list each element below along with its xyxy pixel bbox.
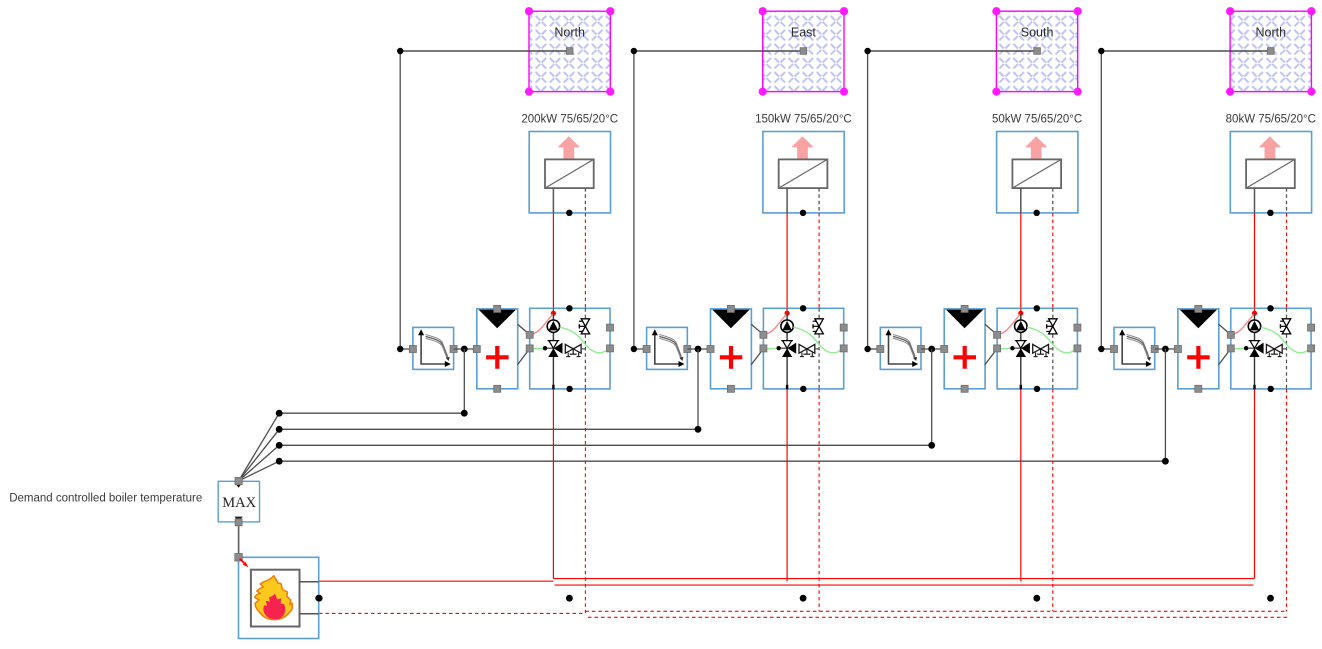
summing block (triangle + plus) unit 3 [941,305,985,392]
node outside-temp corner unit 1 [397,48,403,54]
node curve-input unit 4 [1098,346,1104,352]
node pump-group top unit 1 [566,305,572,311]
wire summing to pump-group upper unit 1 [518,324,530,335]
svg-text:200kW 75/65/20°C: 200kW 75/65/20°C [521,114,618,126]
pipe supply riser radiator unit 1 [552,213,554,309]
node pump-group bottom unit 2 [800,386,806,392]
wire heating-curve output unit 1 [454,348,477,350]
node setpoint junction unit 2 [695,346,702,353]
zone box South unit 3 [992,7,1081,96]
radiator box unit 1 [529,132,610,213]
pipe return drop unit 1 [584,389,586,613]
node bus right end unit 1 [461,410,468,417]
node curve-input unit 3 [864,346,870,352]
node bus left end unit 4 [276,458,283,465]
wire MAX to boiler control [235,519,242,558]
heating curve block unit 2 [643,327,691,369]
svg-text:50kW 75/65/20°C: 50kW 75/65/20°C [992,114,1082,126]
node bus right end unit 4 [1162,458,1169,465]
node curve-input unit 2 [631,346,637,352]
pipe return header main segment [585,610,1286,612]
heating curve block unit 4 [1111,327,1159,369]
pump and valve group box unit 3 [994,308,1081,389]
boiler outer box [239,557,319,638]
pipe return riser radiator unit 3 [1052,213,1054,309]
wire setpoint bus to MAX unit 1 [239,413,465,481]
wire summing to pump-group lower unit 1 [517,349,529,365]
wire outside temperature down-feed unit 1 [400,51,413,349]
zone box East unit 2 [759,7,849,96]
pipe supply drop unit 1 [552,389,554,579]
wire summing to pump-group upper unit 4 [1219,324,1231,335]
boiler burner box [251,570,300,627]
wire outside temperature down-feed unit 3 [868,51,881,349]
wire outside temperature down-feed unit 2 [634,51,647,349]
pump and valve group box unit 2 [760,308,847,389]
summing block (triangle + plus) unit 1 [473,305,517,392]
control arrow into boiler [240,559,249,568]
boiler return stub [300,613,319,615]
heating curve block unit 1 [409,327,457,369]
pipe return riser radiator unit 1 [584,213,586,309]
node pump-group top unit 2 [800,305,806,311]
wire outside temperature down-feed unit 4 [1101,51,1114,349]
node pipe waypoint 2 [566,595,573,602]
node pump-group bottom unit 1 [566,386,572,392]
svg-text:South: South [1021,26,1054,40]
wire summing to pump-group lower unit 3 [985,349,997,365]
node setpoint junction unit 3 [928,346,935,353]
node bus right end unit 3 [928,442,935,449]
node pump-group bottom unit 4 [1268,386,1274,392]
MAX block [218,481,259,522]
wire heating-curve output unit 2 [687,348,710,350]
svg-text:East: East [791,26,817,40]
svg-text:Demand controlled boiler tempe: Demand controlled boiler temperature [9,492,202,504]
node bus left end unit 2 [276,426,283,433]
node setpoint junction unit 4 [1162,346,1169,353]
node pipe waypoint 3 [800,595,807,602]
wire setpoint bus to MAX unit 4 [239,461,1166,481]
wire summing to pump-group lower unit 2 [751,349,763,365]
pipe return header offset segment [588,616,1288,618]
node outside-temp corner unit 4 [1098,48,1104,54]
wire setpoint down-feed unit 4 [1164,349,1166,461]
radiator box unit 4 [1230,132,1311,213]
wire outside temperature to zone North unit 4 [1101,48,1274,55]
pipe supply header boiler segment [319,580,553,582]
summing block (triangle + plus) unit 4 [1174,305,1218,392]
pipe return riser radiator unit 4 [1286,213,1288,309]
node outside-temp corner unit 3 [864,48,870,54]
pump and valve group box unit 4 [1227,308,1314,389]
wire heating-curve output unit 4 [1155,348,1178,350]
zone box North unit 4 [1226,7,1316,96]
svg-text:80kW 75/65/20°C: 80kW 75/65/20°C [1226,114,1316,126]
wire outside temperature to zone North unit 1 [400,48,573,55]
wire setpoint bus to MAX unit 3 [239,445,932,481]
pipe supply riser radiator unit 3 [1020,213,1022,309]
pipe supply header offset segment [555,584,1254,586]
node boiler control port [235,554,243,562]
pipe supply riser radiator unit 4 [1254,213,1256,309]
wire setpoint down-feed unit 3 [931,349,933,445]
pipe supply drop unit 4 [1254,389,1256,578]
node pump-group top unit 3 [1034,305,1040,311]
node pump-group top unit 4 [1267,305,1273,311]
wire setpoint bus to MAX unit 2 [239,429,698,481]
node bus left end unit 1 [276,410,283,417]
node radiator-bottom unit 2 [800,210,806,216]
wire summing to pump-group lower unit 4 [1219,349,1231,365]
flame icon [255,576,293,620]
node radiator-bottom unit 4 [1267,210,1273,216]
wire setpoint down-feed unit 2 [697,349,699,429]
zone box North unit 1 [525,7,615,96]
pipe return drop unit 3 [1052,389,1054,611]
node pipe waypoint 5 [1267,595,1274,602]
node boiler right [315,595,322,602]
svg-text:150kW 75/65/20°C: 150kW 75/65/20°C [755,114,852,126]
node MAX input (arrowheads + port) [235,477,242,487]
wire outside temperature to zone South unit 3 [868,48,1041,55]
node bus right end unit 2 [695,426,702,433]
node pipe waypoint 1 [316,595,323,602]
radiator box unit 2 [763,132,844,213]
pipe return riser radiator unit 2 [818,213,820,309]
node bus left end unit 3 [276,442,283,449]
node radiator-bottom unit 1 [566,210,572,216]
node outside-temp corner unit 2 [631,48,637,54]
svg-text:North: North [1256,26,1287,40]
radiator box unit 3 [997,132,1078,213]
pipe supply drop unit 2 [786,389,788,581]
pipe return drop unit 4 [1286,389,1288,612]
wire setpoint down-feed unit 1 [463,349,465,413]
node pipe waypoint 4 [1033,595,1040,602]
pipe return header boiler segment [319,612,585,614]
summing block (triangle + plus) unit 2 [707,305,751,392]
wire summing to pump-group upper unit 3 [985,324,997,335]
pipe supply drop unit 3 [1020,389,1022,581]
pipe supply riser radiator unit 2 [786,213,788,309]
node radiator-bottom unit 3 [1034,210,1040,216]
heating curve block unit 3 [877,327,925,369]
pipe supply header main segment [553,578,1254,580]
wire summing to pump-group upper unit 2 [751,324,763,335]
wire heating-curve output unit 3 [921,348,944,350]
pump and valve group box unit 1 [526,308,613,389]
node setpoint junction unit 1 [461,346,468,353]
node curve-input unit 1 [397,346,403,352]
svg-text:North: North [554,26,585,40]
node pump-group bottom unit 3 [1034,386,1040,392]
pipe return drop unit 2 [818,389,820,611]
wire outside temperature to zone East unit 2 [634,48,807,55]
boiler supply stub [300,581,319,583]
svg-text:MAX: MAX [222,495,256,511]
